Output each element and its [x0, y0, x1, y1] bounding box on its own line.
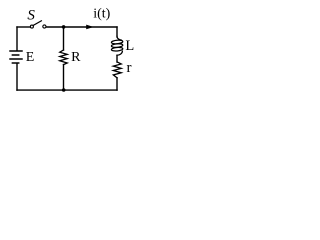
switch S right contact	[43, 25, 46, 28]
wire top-left: corner to switch left contact	[17, 26, 30, 28]
switch S lever	[33, 21, 41, 26]
inductor L loop 2	[111, 43, 123, 47]
svg-text:L: L	[125, 38, 134, 54]
battery E plate short bottom	[12, 62, 18, 64]
inductor L entry curve	[117, 36, 121, 40]
svg-text:S: S	[27, 8, 35, 24]
resistor R zigzag	[60, 50, 67, 65]
wire right side upper: corner down to inductor	[116, 27, 118, 37]
current arrow i(t) head	[86, 25, 94, 30]
wire right side lower: r to bottom-right corner	[116, 78, 118, 90]
wire middle branch lower	[63, 65, 65, 91]
resistor r zigzag	[113, 62, 121, 78]
svg-text:r: r	[127, 60, 132, 76]
wire top: switch right contact to top-right corner	[46, 26, 117, 28]
junction node top (middle branch)	[62, 25, 66, 29]
battery E plate short	[12, 54, 18, 56]
svg-text:E: E	[26, 50, 35, 65]
inductor L exit curve	[117, 51, 122, 55]
wire left side lower: battery to bottom-left corner	[16, 64, 18, 90]
svg-text:R: R	[71, 50, 81, 65]
battery E plate long top	[10, 50, 22, 52]
wire middle branch upper	[63, 27, 65, 50]
junction node bottom (middle branch)	[62, 88, 66, 92]
wire bottom	[17, 89, 117, 91]
wire right side between L and r	[116, 55, 118, 62]
battery E plate long	[10, 58, 22, 60]
inductor L loop 1	[111, 40, 123, 44]
switch S left contact	[30, 25, 33, 28]
wire left side upper: corner down to battery	[16, 27, 18, 50]
svg-text:i(t): i(t)	[93, 6, 110, 21]
inductor L loop 3	[111, 47, 123, 51]
